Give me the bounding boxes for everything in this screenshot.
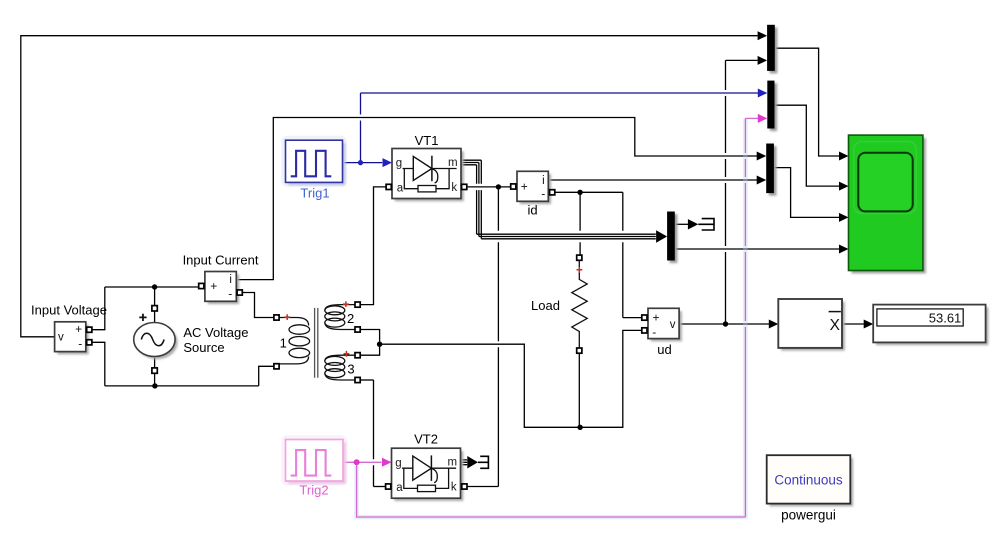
wire: output bottom bus to ud - [580,330,642,427]
wire: Load bottom terminal down to output bus [578,353,580,427]
mean block (X bar) [781,302,845,351]
port + of AC source [152,306,157,311]
node: top bus / AC source + [152,284,157,289]
svg-text:id: id [527,202,537,217]
voltage measurement block ud [651,311,682,341]
wire: cathode node - VT1 k to id + , common vertical to VT2 k [467,186,511,188]
svg-text:-: - [652,325,656,339]
svg-text:m: m [448,457,458,469]
svg-text:a: a [397,182,404,194]
svg-text:i: i [229,274,232,286]
port a of VT2 [386,484,391,489]
node: ud output / scope branch [723,321,728,326]
wire: top source bus [105,286,199,288]
port - of AC source [152,368,157,373]
svg-text:X: X [830,317,841,334]
port bottom of winding 2 [355,327,360,332]
transformer secondary winding 3 [325,355,356,361]
port a of VT1 [386,184,391,189]
node: load bottom / output bus [577,425,582,430]
wire: id current output to Mux3 input 2 [548,179,757,181]
powergui block [770,458,854,506]
pulse generator Trig1 [283,138,345,185]
wire: Input Voltage v output, left edge route up to Mux1 input 1 [21,36,758,337]
port top of Load [577,255,582,260]
node: bottom bus / AC source - [152,383,157,388]
port + of Input Current [199,283,204,288]
voltage measurement block Input Voltage (mirrored) [57,325,88,355]
wire: winding 2 top to VT1 a [360,187,386,305]
svg-text:Trig1: Trig1 [300,186,329,201]
demux Demux [670,214,678,263]
svg-text:k: k [451,182,457,194]
wire: Trig1 output to VT1 gate (blue) [343,162,382,164]
port + of id [511,184,516,189]
wire: Mux1 output to Scope input 1 [775,48,839,156]
wire: Demux output 2 to Scope input 4 [675,248,839,250]
terminator (after demux) [698,219,714,230]
pulse generator Trig2 [283,437,345,483]
wire: AC source top to bus [154,287,156,323]
wire: Trig1 branch up to Mux2 input 1 (blue) [360,93,362,163]
svg-text:AC Voltage: AC Voltage [183,325,248,340]
svg-text:a: a [396,482,403,494]
node: common cathode [496,184,501,189]
resistor Load [572,260,587,348]
mux Mux2 [770,83,777,131]
mux Mux1 [770,27,778,73]
port bottom of winding 3 [355,377,360,382]
wire: Input Voltage + to top bus [91,287,105,330]
transformer secondary winding 2 [325,305,356,311]
svg-text:3: 3 [347,361,354,376]
port primary + of transformer [274,315,279,320]
terminator (after VT2 m) [478,456,489,468]
node: id minus / load top [577,190,582,195]
wire: Mean output to Display [842,323,864,325]
port primary - of transformer [274,364,279,369]
svg-text:-: - [228,287,232,301]
svg-text:53.61: 53.61 [929,311,962,326]
port - of id [550,190,555,195]
scope (green) [852,138,926,273]
svg-text:Input Current: Input Current [183,252,259,267]
svg-text:-: - [541,186,545,200]
transformer core [315,308,318,378]
wire: winding 3 top to center tap [360,344,380,355]
current measurement block id [520,174,551,204]
port + of Input Voltage [87,327,92,332]
wire: Trig2 branch down and around to Mux2 input 2 (magenta) [357,462,746,517]
AC Voltage Source [136,325,177,359]
junction node on Trig1 output [358,160,363,165]
wire: ud output branch up to Mux1 input 2 [726,59,758,61]
wire: VT1 m measurement bundle to Demux (3 parallel lines) [461,160,481,165]
port top of winding 3 [355,353,360,358]
port - of ud [642,328,647,333]
svg-text:Trig2: Trig2 [299,483,328,498]
svg-text:v: v [670,319,676,331]
wire: Demux output 1 to Terminator [675,223,689,225]
wire: bottom source bus [105,385,259,387]
svg-text:2: 2 [347,311,354,326]
svg-text:powergui: powergui [781,508,836,523]
port - of Input Voltage [87,340,92,345]
wire: Input Voltage - to bottom bus [91,342,105,386]
wire: AC source bottom to bus [154,356,156,386]
wire: bottom source bus to transformer primary - [259,366,274,386]
svg-text:g: g [396,158,402,170]
selection glow of Trig2 wire [357,118,746,517]
svg-text:+: + [652,311,659,325]
display block [876,307,988,345]
polarity + of primary [284,314,290,320]
svg-text:+: + [210,279,217,293]
sine symbol of AC source [141,333,164,345]
svg-text:k: k [451,482,457,494]
svg-text:Source: Source [183,340,224,355]
junction node on Trig2 output [354,459,360,465]
wire: Mux3 output to Scope input 3 [774,168,839,218]
wire: Trig2 output to VT2 gate (magenta) [344,461,382,463]
polarity + of winding 2 [343,301,349,307]
wire: Input Current - to transformer primary + [242,293,274,318]
wire: winding 3 bottom to VT2 a [360,379,373,381]
svg-text:m: m [448,157,458,169]
thyristor VT1 [392,149,464,202]
svg-text:Input Voltage: Input Voltage [31,303,107,318]
port + of ud [642,315,647,320]
svg-text:VT2: VT2 [414,432,438,447]
wire: transformer center tap to output bottom bus [380,344,580,427]
port k of VT1 [462,184,467,189]
scope screen [858,153,912,212]
svg-text:Load: Load [531,298,560,313]
polarity + of AC source [139,314,146,321]
svg-text:1: 1 [280,336,287,351]
wire: ud output to Mean block [679,323,769,325]
wire: Input Current i output routed over top to Mux3 input 1 [236,118,757,280]
svg-text:VT1: VT1 [415,133,439,148]
svg-text:+: + [521,179,528,193]
svg-text:i: i [542,175,545,187]
wire: Mux2 output to Scope input 2 [775,105,840,186]
svg-text:+: + [75,322,82,336]
mux Mux3 [769,146,777,196]
thyristor VT2 [392,448,464,501]
svg-text:g: g [395,457,401,469]
svg-text:-: - [78,336,82,350]
node: transformer center tap [377,342,382,347]
svg-text:Continuous: Continuous [774,473,843,488]
transformer primary winding 1 [279,318,308,326]
svg-text:v: v [58,332,64,344]
port top of winding 2 [355,302,360,307]
wire: VT2 m measurement bundle to Terminator (3 parallel lines) [461,460,468,465]
port k of VT2 [462,484,467,489]
svg-text:ud: ud [657,342,671,357]
port - of Input Current [237,290,242,295]
wire: winding 2 bottom to center tap [360,330,380,345]
current measurement block Input Current [208,274,239,304]
port bottom of Load [577,348,582,353]
polarity + of Load [577,267,583,273]
wire: junction to Load top terminal [579,192,581,255]
polarity + of winding 3 [344,351,350,357]
wire: id - output to Load top and to ud + [555,191,623,193]
